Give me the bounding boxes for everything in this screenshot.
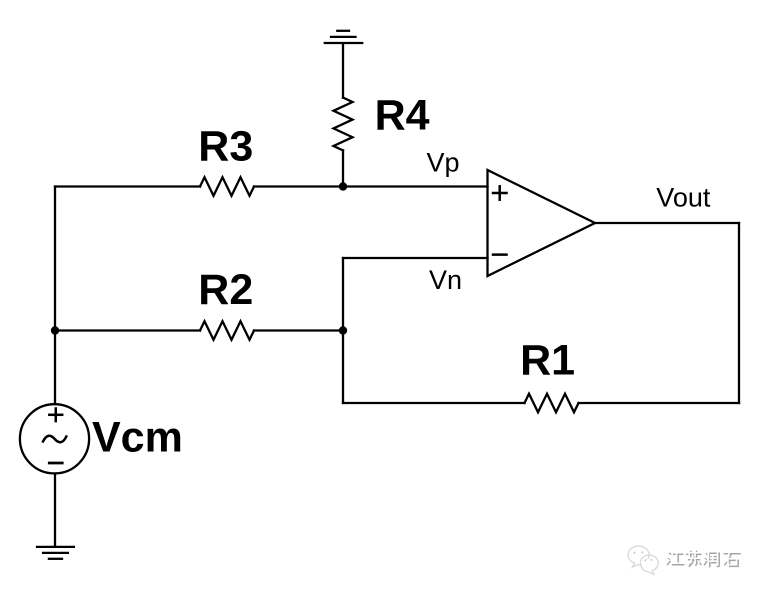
svg-text:R1: R1 <box>520 337 575 385</box>
node junction <box>51 326 59 334</box>
wire <box>254 185 343 187</box>
source Vcm <box>20 404 89 473</box>
wire <box>738 223 740 403</box>
svg-text:Vn: Vn <box>429 265 462 295</box>
node Vp junction <box>339 182 347 190</box>
wire <box>254 329 343 331</box>
node Vn junction <box>339 326 347 334</box>
watermark logo <box>628 546 658 574</box>
wire <box>55 185 200 187</box>
ground bottom <box>37 547 74 559</box>
svg-text:R4: R4 <box>375 92 430 140</box>
svg-text:R2: R2 <box>198 266 253 314</box>
svg-text:Vcm: Vcm <box>92 414 183 462</box>
svg-text:R3: R3 <box>198 122 253 170</box>
wire <box>54 474 56 546</box>
wire <box>342 150 344 186</box>
wire <box>343 185 488 187</box>
wire <box>343 257 488 259</box>
wire <box>54 331 56 404</box>
wire <box>342 44 344 98</box>
ground top <box>325 31 362 43</box>
wire <box>595 222 739 224</box>
resistor R1 <box>525 394 579 412</box>
svg-text:Vout: Vout <box>656 183 711 213</box>
wire <box>579 402 740 404</box>
wire <box>342 258 344 403</box>
resistor R3 <box>200 177 254 195</box>
svg-text:Vp: Vp <box>427 148 460 178</box>
resistor R2 <box>200 321 254 339</box>
wire <box>343 402 525 404</box>
op-amp U1 <box>488 170 596 276</box>
wire <box>54 187 56 331</box>
wire <box>55 329 200 331</box>
resistor R4 <box>334 98 353 151</box>
